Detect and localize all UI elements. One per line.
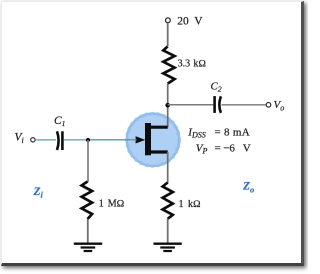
- svg-text:1 MΩ: 1 MΩ: [99, 198, 125, 209]
- svg-text:IDSS: IDSS: [187, 127, 205, 140]
- svg-text:Zo: Zo: [242, 181, 254, 195]
- svg-text:C2: C2: [211, 81, 222, 94]
- svg-text:20: 20: [177, 15, 189, 27]
- svg-text:Vo: Vo: [274, 99, 285, 113]
- svg-text:8 mA: 8 mA: [224, 126, 250, 138]
- svg-text:C1: C1: [54, 115, 65, 128]
- svg-text:V: V: [243, 142, 251, 154]
- svg-text:−6: −6: [223, 142, 235, 154]
- svg-text:Zi: Zi: [33, 186, 44, 200]
- svg-text:=: =: [215, 127, 221, 139]
- svg-text:V: V: [194, 15, 203, 27]
- svg-text:=: =: [215, 142, 221, 154]
- svg-text:Vi: Vi: [15, 132, 24, 146]
- svg-text:VP: VP: [196, 142, 208, 155]
- svg-text:1 kΩ: 1 kΩ: [179, 199, 202, 210]
- svg-text:3.3 kΩ: 3.3 kΩ: [178, 58, 207, 69]
